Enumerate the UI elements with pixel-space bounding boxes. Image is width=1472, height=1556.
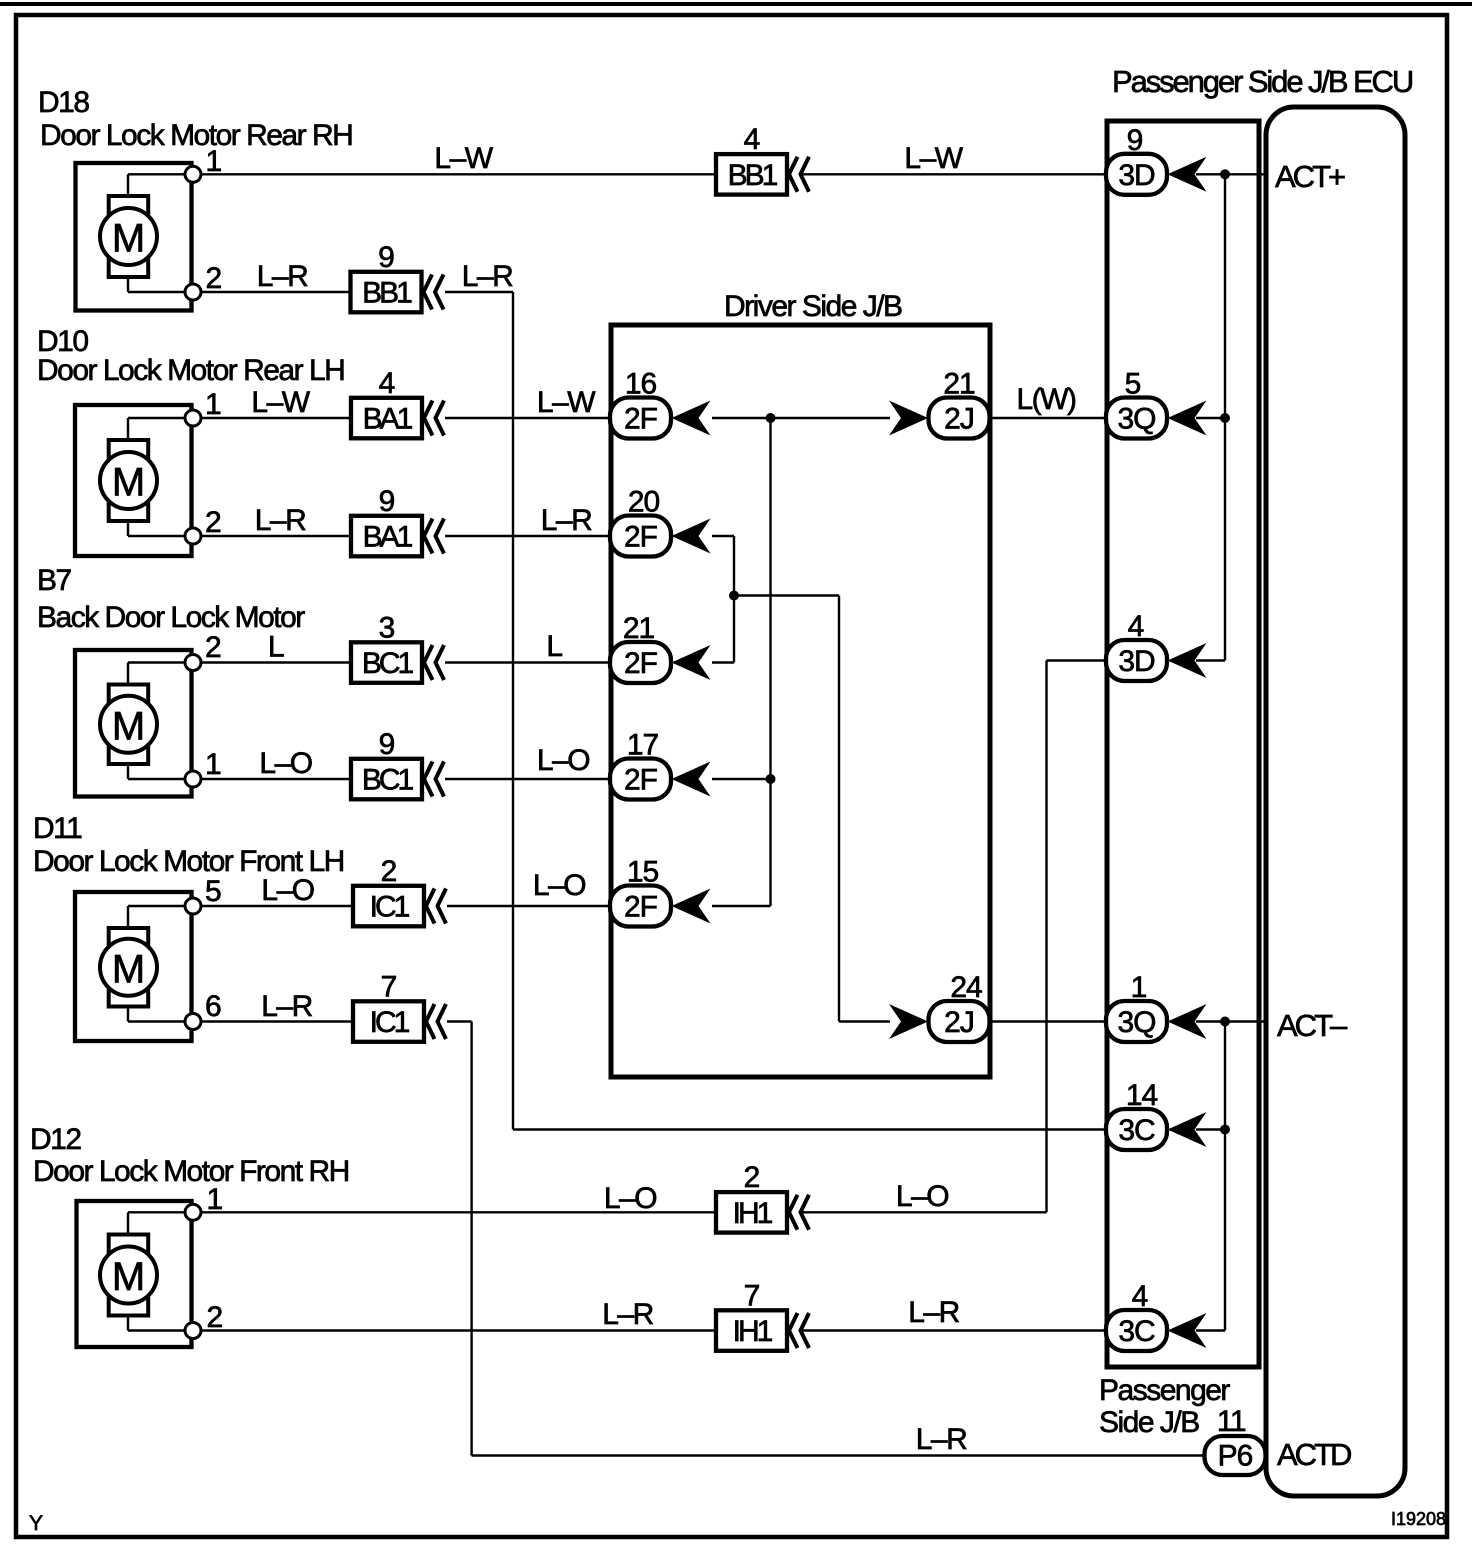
svg-text:L–R: L–R xyxy=(916,1423,967,1456)
junction dot 3Q-5 xyxy=(1220,413,1230,423)
connector IC1 pin 7 xyxy=(353,1001,424,1042)
svg-text:5: 5 xyxy=(205,875,221,908)
svg-text:9: 9 xyxy=(1127,124,1143,157)
wire IH1-7 to 3C-4 xyxy=(800,1329,1106,1331)
motor D10 xyxy=(75,405,201,556)
wire 595 branch xyxy=(734,594,839,596)
svg-text:24: 24 xyxy=(950,971,982,1004)
wire BC1-9 to 2F-17 xyxy=(445,778,610,780)
svg-text:I19208: I19208 xyxy=(1391,1509,1446,1529)
junction dot ACT+ xyxy=(1220,169,1230,179)
svg-text:9: 9 xyxy=(379,485,395,518)
svg-text:ACTD: ACTD xyxy=(1277,1437,1351,1472)
svg-text:21: 21 xyxy=(943,368,975,401)
svg-text:Back Door Lock Motor: Back Door Lock Motor xyxy=(37,601,305,634)
ECU box xyxy=(1266,107,1405,1496)
svg-text:3D: 3D xyxy=(1118,645,1155,678)
svg-text:D12: D12 xyxy=(30,1123,81,1156)
svg-text:1: 1 xyxy=(1131,971,1147,1004)
motor D18 xyxy=(76,163,202,311)
svg-text:2: 2 xyxy=(744,1161,760,1194)
wire IH1-2 right xyxy=(800,1211,1047,1213)
svg-text:L–O: L–O xyxy=(604,1182,656,1215)
svg-text:4: 4 xyxy=(379,367,395,400)
svg-text:2: 2 xyxy=(381,855,397,888)
wire bus x839 xyxy=(838,596,840,1022)
svg-text:7: 7 xyxy=(744,1279,760,1312)
wire 2J-24 to 3Q-1 xyxy=(989,1020,1106,1022)
svg-text:6: 6 xyxy=(205,990,221,1023)
svg-text:3Q: 3Q xyxy=(1117,403,1155,436)
wire D18 pin1 to BB1 xyxy=(201,173,716,175)
svg-text:Door Lock Motor Rear LH: Door Lock Motor Rear LH xyxy=(37,354,344,387)
wire D10 pin2 to BA1 xyxy=(201,535,351,537)
svg-text:L: L xyxy=(546,630,562,663)
wire vertical x471 ACTD xyxy=(470,1022,472,1456)
svg-text:1: 1 xyxy=(207,1183,223,1216)
svg-text:Driver Side J/B: Driver Side J/B xyxy=(724,290,902,323)
svg-text:L–R: L–R xyxy=(257,260,308,293)
svg-text:14: 14 xyxy=(1126,1079,1158,1112)
svg-text:L–O: L–O xyxy=(259,747,311,780)
junction box Passenger Side J/B xyxy=(1107,121,1259,1367)
svg-text:11: 11 xyxy=(1217,1405,1246,1438)
svg-text:2F: 2F xyxy=(624,521,658,554)
wire BC1-3 to 2F-21 xyxy=(445,661,610,663)
wire D11 pin5 to IC1 xyxy=(202,905,353,907)
motor D12 xyxy=(77,1201,202,1347)
wire 3C-4 internal stub xyxy=(1196,1329,1225,1331)
svg-text:21: 21 xyxy=(623,612,655,645)
svg-text:IC1: IC1 xyxy=(370,1006,410,1039)
wire 2F-21 stub xyxy=(712,661,734,663)
svg-text:BA1: BA1 xyxy=(363,521,413,554)
svg-text:20: 20 xyxy=(628,486,660,519)
junction dot ACT- xyxy=(1220,1017,1230,1027)
svg-text:3: 3 xyxy=(379,611,395,644)
svg-text:1: 1 xyxy=(205,748,221,781)
wire 3Q-1 to ACT- xyxy=(1196,1020,1266,1022)
wire bus x734 xyxy=(733,536,735,663)
wire D10 pin1 to BA1 xyxy=(201,417,351,419)
connector 3C pin 4 xyxy=(1106,1310,1167,1351)
svg-text:L–R: L–R xyxy=(541,504,592,537)
svg-text:2: 2 xyxy=(207,1301,223,1334)
connector IH1 pin 2 xyxy=(716,1192,787,1233)
motor D11 xyxy=(75,892,201,1041)
svg-text:2F: 2F xyxy=(624,403,658,436)
svg-text:2: 2 xyxy=(205,506,221,539)
connector 2F pin 15 xyxy=(610,886,671,927)
svg-text:7: 7 xyxy=(381,970,397,1003)
svg-text:Passenger Side J/B ECU: Passenger Side J/B ECU xyxy=(1112,64,1412,99)
svg-text:9: 9 xyxy=(379,728,395,761)
svg-text:2F: 2F xyxy=(624,647,658,680)
wire B7 pin2 to BC1 xyxy=(201,661,351,663)
svg-text:L–R: L–R xyxy=(908,1296,959,1329)
svg-text:M: M xyxy=(112,461,145,505)
connector BC1 pin 3 xyxy=(351,642,422,683)
junction dot 2F-16 bus xyxy=(766,413,776,423)
svg-text:L–O: L–O xyxy=(533,869,585,902)
svg-text:M: M xyxy=(112,947,145,991)
connector P6 pin 11 xyxy=(1205,1436,1266,1475)
junction box Driver Side J/B xyxy=(611,325,990,1077)
svg-text:L–R: L–R xyxy=(462,260,513,293)
wire D12 pin2 to IH1 xyxy=(202,1329,716,1331)
connector 2F pin 20 xyxy=(610,516,671,557)
wire B7 pin1 to BC1 xyxy=(201,778,351,780)
svg-text:L–W: L–W xyxy=(537,386,596,419)
connector 3Q pin 5 xyxy=(1106,398,1167,439)
svg-text:BC1: BC1 xyxy=(362,764,414,797)
wire 3D-4 internal stub xyxy=(1196,659,1225,661)
wire D12 pin1 to IH1 xyxy=(202,1211,716,1213)
wire 3C-14 long xyxy=(513,1128,1106,1130)
svg-text:4: 4 xyxy=(1132,1280,1148,1313)
svg-text:L–O: L–O xyxy=(896,1180,948,1213)
wire 3D-4 stub xyxy=(1047,659,1107,661)
wire 3Q-5 stub xyxy=(1196,417,1225,419)
svg-text:D11: D11 xyxy=(33,812,82,845)
connector 3D pin 4 xyxy=(1106,640,1167,681)
connector BA1 pin 4 xyxy=(351,398,422,439)
svg-text:L–R: L–R xyxy=(255,504,306,537)
motor B7 xyxy=(75,650,201,797)
wire 2J-21 to 3Q-5 xyxy=(989,417,1106,419)
wire 2F-20 stub xyxy=(712,535,734,537)
svg-text:D18: D18 xyxy=(38,86,89,119)
wire vertical x1046 L-O xyxy=(1045,661,1047,1213)
svg-text:L–W: L–W xyxy=(434,142,493,175)
connector BB1 pin 4 xyxy=(716,154,787,195)
connector 2F pin 16 xyxy=(610,398,671,439)
svg-text:4: 4 xyxy=(1128,610,1144,643)
svg-text:15: 15 xyxy=(627,856,659,889)
svg-text:L–O: L–O xyxy=(537,744,589,777)
wire 2F-17 stub xyxy=(712,778,771,780)
junction dot 2F-17 bus xyxy=(766,774,776,784)
wire 3C-14 internal stub xyxy=(1196,1128,1225,1130)
connector BA1 pin 9 xyxy=(351,516,422,557)
svg-text:1: 1 xyxy=(205,388,221,421)
svg-text:2J: 2J xyxy=(944,1006,974,1039)
svg-text:L–R: L–R xyxy=(602,1298,653,1331)
svg-text:Passenger: Passenger xyxy=(1099,1374,1230,1407)
svg-text:ACT–: ACT– xyxy=(1277,1008,1348,1043)
svg-text:B7: B7 xyxy=(37,564,72,597)
wire D11 pin6 to IC1 xyxy=(202,1020,353,1022)
svg-text:Door Lock Motor Front RH: Door Lock Motor Front RH xyxy=(33,1155,349,1188)
connector IH1 pin 7 xyxy=(716,1310,787,1351)
connector 2F pin 17 xyxy=(610,759,671,800)
svg-text:BC1: BC1 xyxy=(362,647,414,680)
wire ACT+ bus vertical xyxy=(1224,174,1226,660)
svg-text:L–R: L–R xyxy=(261,990,312,1023)
svg-text:L: L xyxy=(268,631,284,664)
wire BB1 to 3D xyxy=(800,173,1106,175)
svg-text:ACT+: ACT+ xyxy=(1275,159,1345,194)
svg-text:Door Lock Motor Rear RH: Door Lock Motor Rear RH xyxy=(40,119,352,152)
junction dot x734 bus xyxy=(729,591,739,601)
svg-text:IH1: IH1 xyxy=(733,1315,773,1348)
svg-text:L–W: L–W xyxy=(904,142,963,175)
svg-text:L–O: L–O xyxy=(261,874,313,907)
wire 3D-9 to ACT+ xyxy=(1196,173,1266,175)
connector BC1 pin 9 xyxy=(351,759,422,800)
svg-text:2F: 2F xyxy=(624,891,658,924)
svg-text:2F: 2F xyxy=(624,764,658,797)
connector 3Q pin 1 xyxy=(1106,1001,1167,1042)
svg-text:M: M xyxy=(112,217,145,261)
svg-text:16: 16 xyxy=(625,368,657,401)
wire 2F-15 stub xyxy=(712,905,771,907)
svg-text:9: 9 xyxy=(378,241,394,274)
svg-text:M: M xyxy=(112,704,145,748)
wire 2F-16 to 2J-21 xyxy=(712,417,890,419)
svg-text:IC1: IC1 xyxy=(370,891,410,924)
wire vertical x513 L-R xyxy=(512,292,514,1130)
connector 2J pin 21 xyxy=(929,398,990,439)
svg-text:3Q: 3Q xyxy=(1117,1006,1155,1039)
svg-text:Y: Y xyxy=(29,1512,43,1535)
svg-text:L–W: L–W xyxy=(251,386,310,419)
page edge line (scan artifact) xyxy=(0,2,1472,6)
svg-text:4: 4 xyxy=(744,123,760,156)
svg-text:3C: 3C xyxy=(1118,1114,1155,1147)
wire BA1 to 2F-16 xyxy=(445,417,610,419)
svg-text:2J: 2J xyxy=(944,403,974,436)
svg-text:5: 5 xyxy=(1125,368,1141,401)
wire D18 pin2 to BB1 xyxy=(201,291,351,293)
svg-text:2: 2 xyxy=(205,631,221,664)
connector IC1 pin 2 xyxy=(353,886,424,927)
connector 2F pin 21 xyxy=(610,642,671,683)
wire IC1-7 to vertical xyxy=(447,1020,472,1022)
wire BB1-9 to vertical xyxy=(445,291,513,293)
svg-text:M: M xyxy=(112,1255,145,1299)
connector 3D pin 9 xyxy=(1106,154,1167,195)
connector 2J pin 24 xyxy=(929,1001,990,1042)
connector 3C pin 14 xyxy=(1106,1109,1167,1150)
svg-text:IH1: IH1 xyxy=(733,1197,773,1230)
svg-text:P6: P6 xyxy=(1218,1440,1253,1473)
svg-text:3D: 3D xyxy=(1118,159,1155,192)
svg-text:Side J/B: Side J/B xyxy=(1099,1406,1199,1439)
svg-text:17: 17 xyxy=(627,729,659,762)
wire bus x770 xyxy=(769,418,771,906)
wire ACT- bus vertical xyxy=(1224,1022,1226,1331)
svg-text:1: 1 xyxy=(206,145,222,178)
svg-text:L(W): L(W) xyxy=(1017,383,1076,416)
svg-text:BB1: BB1 xyxy=(728,159,778,192)
svg-text:BA1: BA1 xyxy=(363,403,413,436)
wire to 2J-24 xyxy=(839,1020,890,1022)
svg-text:BB1: BB1 xyxy=(362,277,412,310)
wire IC1-2 to 2F-15 xyxy=(447,905,610,907)
junction dot 3C-14 xyxy=(1220,1125,1230,1135)
svg-text:3C: 3C xyxy=(1118,1315,1155,1348)
svg-text:2: 2 xyxy=(206,262,222,295)
connector BB1 pin 9 xyxy=(351,272,422,313)
wire BA1-9 to 2F-20 xyxy=(445,535,610,537)
wire ACTD run to P6 xyxy=(472,1454,1205,1456)
